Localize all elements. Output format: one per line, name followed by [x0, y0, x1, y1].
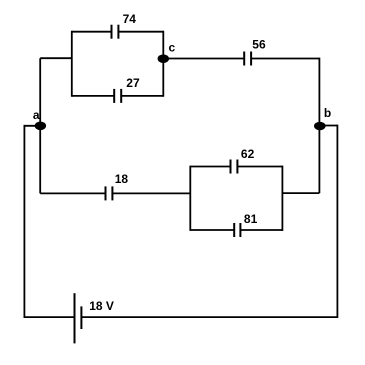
svg-text:81: 81: [244, 212, 258, 226]
node a junction dot: [35, 122, 46, 131]
wire: loop bottom right segment from capacitor C27: [121, 95, 163, 97]
capacitor 74 plates: [111, 25, 113, 39]
node b junction dot: [314, 122, 326, 131]
wire: parallel block right edge: [281, 166, 283, 231]
wire: block exit to right vertical: [282, 192, 319, 194]
svg-text:b: b: [324, 106, 331, 120]
wire: block bottom left segment to capacitor C81: [190, 229, 234, 231]
wire: block top left segment to capacitor C62: [190, 166, 230, 168]
wire: outer right vertical from node b level down to battery row: [336, 125, 338, 318]
wire: top parallel loop left edge: [71, 31, 73, 97]
svg-text:62: 62: [241, 147, 255, 161]
svg-text:56: 56: [252, 37, 266, 51]
wire: outer left vertical from node a level down to battery row: [23, 125, 25, 318]
node c junction dot: [158, 54, 169, 63]
svg-text:18: 18: [115, 172, 129, 186]
svg-text:74: 74: [123, 12, 137, 26]
wire: from node c rightward to capacitor C56: [163, 58, 244, 60]
wire: node b rightward stub: [319, 125, 337, 127]
wire: loop top left segment to capacitor C74: [72, 31, 112, 33]
wire: block top right segment from capacitor C62: [237, 166, 282, 168]
capacitor 27 plates: [113, 89, 115, 103]
battery V1 long plate: [74, 293, 76, 343]
wire: loop top right segment from capacitor C74: [118, 31, 163, 33]
capacitor 18 plates: [105, 186, 107, 200]
battery V1 short plate: [80, 306, 82, 329]
svg-text:27: 27: [126, 76, 140, 90]
wire: loop bottom left segment to capacitor C27: [72, 95, 114, 97]
wire: right vertical from C56 level through node b down to mid row: [318, 58, 320, 194]
wire: bottom left segment to battery: [24, 316, 74, 318]
wire: loop mid-left connector to node a column: [40, 57, 72, 59]
wire: block bottom right segment from capacitor C81: [240, 229, 282, 231]
capacitor 56 plates: [243, 52, 245, 66]
wire: vertical from node a down to middle row: [39, 126, 41, 194]
svg-text:c: c: [169, 41, 176, 55]
capacitor 62 plates: [230, 160, 232, 174]
wire: bottom right segment from battery: [81, 316, 337, 318]
wire: middle row segment from C18 to parallel block: [112, 192, 190, 194]
svg-text:a: a: [33, 108, 40, 122]
wire: vertical from connector down to node a: [39, 58, 41, 126]
wire: node a leftward stub: [24, 125, 40, 127]
svg-text:18 V: 18 V: [89, 299, 114, 313]
capacitor 81 plates: [233, 223, 235, 237]
wire: top parallel loop right edge (through node c): [162, 31, 164, 97]
wire: middle row left segment to capacitor C18: [40, 192, 105, 194]
wire: parallel block left edge: [189, 166, 191, 231]
wire: from capacitor C56 to right vertical: [251, 58, 319, 60]
